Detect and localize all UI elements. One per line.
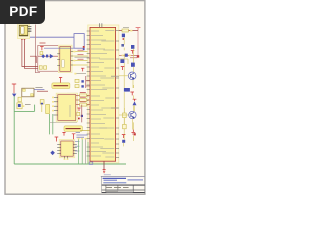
capacitor C12 blue cell A xyxy=(131,63,135,67)
pin pad yellow on rail wire xyxy=(130,30,132,32)
capacitor C3 yellow small top xyxy=(40,52,43,55)
capacitor C17 blue-gray tick xyxy=(121,44,124,47)
polarized cap blue down arrow xyxy=(12,94,16,97)
capacitor C14 blue cell D xyxy=(122,140,125,143)
cell text gray bottom row xyxy=(106,190,118,192)
wire: olive vertical with blue tip xyxy=(41,103,43,112)
red tick below resistors xyxy=(78,118,80,120)
net text right of P2 xyxy=(25,104,31,106)
pins of U1 right side xyxy=(116,31,119,158)
designator text vertical in U4 xyxy=(69,105,71,117)
red pad marks below U2 xyxy=(21,38,25,40)
pin pads yellow bottom center xyxy=(78,138,87,140)
capacitor C1 yellow xyxy=(39,66,42,69)
capacitor C15 blue upper cluster xyxy=(131,45,134,49)
IC U5 bottom-left xyxy=(59,140,74,158)
wire: maroon net through J1 xyxy=(38,55,60,57)
capacitor C16 blue small xyxy=(125,54,128,57)
pin pads yellow U1 left at olive rows xyxy=(88,51,90,66)
resistor R2 row xyxy=(76,97,90,101)
VCC symbol red above HL1 xyxy=(59,78,62,84)
wire: green bottom horizontal xyxy=(14,163,126,165)
connector P2 small left xyxy=(17,103,24,109)
pin name text gray left of Q1 xyxy=(111,75,119,77)
resistor R3 row xyxy=(76,102,90,106)
wire: long horizontal blue net from U2 to loop xyxy=(28,36,74,38)
pins of U5 bottom xyxy=(65,156,68,159)
wire: red vertical rail xyxy=(137,30,139,57)
PDF badge overlay xyxy=(0,0,45,24)
pins of U1 left side xyxy=(87,31,90,156)
designator text gray above R10 xyxy=(123,26,129,28)
IC U4 mid-left xyxy=(56,93,77,122)
net text small right of U5 xyxy=(75,142,80,151)
capacitor C2 yellow xyxy=(44,66,47,69)
capacitor C5 yellow right xyxy=(40,100,44,104)
red tick below C10 xyxy=(123,38,125,40)
cell text gray rows xyxy=(106,187,129,189)
capacitor C6 below resistors xyxy=(77,112,80,115)
IC U3 mid upper xyxy=(58,45,72,72)
net name red dashes on olive nets xyxy=(78,50,84,59)
wire: olive connections cell A xyxy=(119,59,128,64)
hier label HL1 yellow xyxy=(52,83,70,89)
wire: dark line below U4 xyxy=(50,122,77,124)
pins of U2 right side xyxy=(28,27,32,32)
designator text red above J1 xyxy=(40,42,46,44)
wire: olive stub cell D xyxy=(123,143,125,147)
capacitor C4 yellow below xyxy=(18,97,21,101)
capacitor C11 blue cell A xyxy=(120,59,124,63)
VCC symbol red cell A xyxy=(121,67,125,70)
capacitor C10 blue xyxy=(122,34,125,38)
wire: olive connections cell B xyxy=(119,76,133,88)
diode D2 blue xyxy=(50,54,54,59)
resistor R12 xyxy=(123,124,127,128)
wire: green vertical left xyxy=(13,96,15,164)
cell fill gray bottom row xyxy=(106,190,133,192)
wire: maroon stub box near x36 xyxy=(30,56,36,63)
module box J1 maroon outline xyxy=(38,45,60,71)
VCC symbol red cell B xyxy=(130,92,134,95)
pins of U3 xyxy=(57,52,73,66)
VCC symbol red left cluster xyxy=(12,84,16,93)
wire: vertical pale maroon wire from top to mid xyxy=(35,25,40,73)
title text rowB blue xyxy=(104,179,118,181)
net text gray above crystal xyxy=(76,73,86,75)
title text row3 blue xyxy=(103,182,126,184)
VCC rail red right xyxy=(136,28,141,30)
pin pads yellow U1 left at resistor rows xyxy=(88,95,90,106)
net label text above xyxy=(35,86,42,88)
diode D3 blue up arrow xyxy=(133,101,137,105)
wire: maroon vertical below U1 xyxy=(103,161,105,169)
wire: olive vertical runs right column xyxy=(124,38,133,141)
junction dots at loop corner xyxy=(83,46,85,50)
resistor R1 row xyxy=(76,93,90,97)
wire: blue net along loop bottom xyxy=(44,47,74,49)
wire: maroon net row y55.6 xyxy=(119,55,138,57)
ground symbol red cell C xyxy=(132,130,136,134)
pin pads yellow row y55 xyxy=(122,55,131,57)
wire: blue rectangle routing loop xyxy=(74,34,84,49)
pin pads yellow below U5 xyxy=(64,158,69,160)
title block frame xyxy=(102,176,145,193)
IC U2 top-left regulator xyxy=(18,24,30,38)
title text row1 faint blue xyxy=(104,174,111,176)
pin stubs top of U1 xyxy=(100,23,102,27)
junction dot red on rail xyxy=(137,55,139,57)
red mark right cell D xyxy=(134,133,136,135)
VCC symbol red above crystal xyxy=(81,68,84,71)
pins of U4 left with pads xyxy=(53,97,57,115)
net label texts bottom center blue xyxy=(76,135,87,137)
wire: maroon stub left of HL1 xyxy=(37,90,48,92)
hier label HL2 yellow bottom xyxy=(64,126,82,131)
wire: olive nets U3 to U1 xyxy=(73,52,90,66)
pin number text columns inside U1 xyxy=(91,31,114,157)
wire: vertical wires bottom center xyxy=(79,139,83,164)
VCC symbol red cell D xyxy=(122,135,126,138)
IC U1 main MCU block xyxy=(88,25,119,163)
wire: maroon stub left of rail dot xyxy=(130,57,137,59)
capacitor small blue in J1 xyxy=(46,55,48,58)
pin pads yellow U4 xyxy=(52,97,54,112)
resistor R4 vertical xyxy=(46,105,50,114)
wire: maroon vertical near crystal xyxy=(86,76,90,88)
resistor R10 on top wire xyxy=(122,29,128,32)
ground flag red below U1 xyxy=(103,170,106,173)
crystal Y1 cluster xyxy=(75,79,84,87)
VCC symbol red cell C top xyxy=(133,99,137,101)
transistor Q2 xyxy=(129,111,136,118)
wire: olive from HL2 to U1 xyxy=(80,130,90,132)
pin pad yellow above crystal xyxy=(74,73,76,75)
pins of U5 xyxy=(57,145,77,154)
wire: green vertical pair center xyxy=(50,114,53,134)
wire: olive connections cell C xyxy=(119,105,135,129)
title block top border gray xyxy=(101,176,145,178)
wire: vertical gray bottom center xyxy=(86,139,88,164)
pin name text gray left of Q2 xyxy=(111,107,118,109)
wire: blue net right of L1 xyxy=(34,89,44,91)
pin pads yellow right of U3 xyxy=(73,51,75,66)
wire: green horizontal upper xyxy=(14,105,34,112)
net label gray small right of HL2 xyxy=(76,132,80,134)
capacitor C13 blue under Q1 xyxy=(124,88,130,92)
inductor L1 module box xyxy=(22,88,34,97)
wire: maroon vertical right of U4 xyxy=(81,105,83,123)
title text right blue xyxy=(128,179,144,181)
VCC symbol red above U5 left xyxy=(55,137,59,142)
VCC symbol red small below xyxy=(77,108,80,111)
net name text left of U1 rows xyxy=(67,57,89,93)
VCC symbol red upper cluster xyxy=(131,51,134,54)
sheet background page xyxy=(5,1,145,195)
title text rowA blue dense xyxy=(103,177,126,179)
resistor R11 xyxy=(123,113,127,118)
wire: maroon vertical pair from U2 down xyxy=(22,37,38,68)
transistor Q1 xyxy=(128,72,136,80)
capacitor blue tick below resistors xyxy=(81,115,83,117)
net label blue at U1 bottom corner xyxy=(89,162,93,164)
junction diamond blue in J1 xyxy=(41,54,45,58)
wire: maroon horizontal to rail xyxy=(119,30,138,32)
VCC symbol red above U5 right xyxy=(72,134,76,141)
junction diamond blue xyxy=(50,151,55,156)
VCC symbol red inside J1 xyxy=(40,47,43,51)
VCC symbol red below HL2 xyxy=(62,132,65,135)
